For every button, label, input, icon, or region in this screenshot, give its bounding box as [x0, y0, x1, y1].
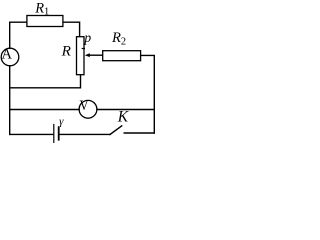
- svg-text:p: p: [83, 30, 91, 45]
- svg-text:A: A: [2, 47, 13, 63]
- svg-text:V: V: [80, 98, 89, 114]
- svg-text:R2: R2: [111, 30, 126, 48]
- svg-text:γ: γ: [59, 115, 64, 127]
- svg-text:R1: R1: [34, 0, 49, 17]
- svg-text:R: R: [61, 42, 72, 59]
- svg-text:K: K: [117, 108, 129, 125]
